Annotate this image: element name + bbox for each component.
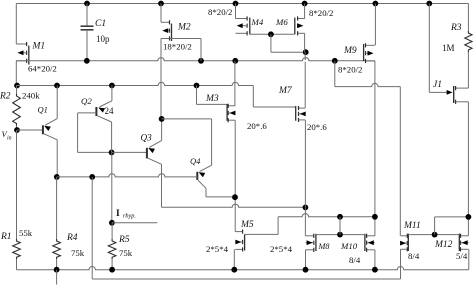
wire M9 source / rail corner down to M10 drain: [374, 61, 376, 236]
node M8 source bottom: [303, 267, 309, 273]
transistor M4: [236, 18, 248, 20]
wire bias rail (M1 source): [16, 58, 375, 61]
wire M5 gate to output rail: [245, 233, 279, 235]
svg-text:64*20/2: 64*20/2: [28, 64, 57, 74]
transistor M3: [196, 86, 198, 105]
node bias rail / M4-M3 column: [232, 58, 238, 64]
node output rail / mirror gates branch: [337, 214, 343, 220]
svg-text:M2: M2: [177, 23, 191, 33]
transistor M10: [367, 235, 375, 237]
wire rail2 corner down to M7 gate: [252, 86, 254, 108]
wire top VDD rail: [16, 3, 468, 5]
node R5 bottom: [109, 267, 115, 273]
node M3 source / Q4 collector / M5 drain: [232, 194, 238, 200]
transistor M1: [16, 43, 26, 45]
svg-text:M6: M6: [275, 17, 288, 27]
node VDD-M9 junction: [373, 1, 379, 7]
svg-text:R3: R3: [450, 23, 462, 33]
svg-text:in: in: [7, 136, 12, 142]
svg-text:55k: 55k: [19, 228, 33, 238]
node M5 source bottom: [231, 267, 237, 273]
svg-text:1M: 1M: [442, 43, 455, 53]
svg-text:M4: M4: [251, 17, 264, 27]
node VDD-M2 junction: [158, 1, 164, 7]
svg-text:2*5*4: 2*5*4: [206, 244, 229, 254]
wire gate branch down: [270, 34, 272, 52]
wire Q4 emitter feed: [162, 118, 212, 120]
transistor J1: [447, 90, 453, 95]
svg-text:I: I: [116, 209, 120, 219]
node Vin input: [14, 127, 20, 133]
svg-text:M3: M3: [205, 94, 219, 104]
resistor R5: [111, 223, 113, 239]
node VDD-J1 gate junction: [426, 1, 432, 7]
svg-text:M10: M10: [340, 241, 358, 251]
wire Q2/Q3 base wire: [112, 151, 147, 153]
wire M6-M7 column: [304, 52, 306, 60]
svg-text:18*20/2: 18*20/2: [163, 42, 192, 52]
wire Q2 node column down to R5: [111, 122, 113, 152]
wire Q4 base rail: [57, 174, 198, 177]
node M6 source / gates / M7 drain: [303, 49, 309, 55]
transistor M2: [161, 21, 170, 23]
resistor R1: [13, 239, 21, 259]
node M10 source bottom: [372, 267, 378, 273]
wire M2 source down to Q3-Q4 emitters: [160, 39, 162, 119]
transistor M9: [366, 44, 375, 46]
transistor Q3: [161, 119, 163, 141]
svg-text:8*20/2: 8*20/2: [338, 65, 362, 75]
node bias rail / M9 gate branch: [332, 58, 338, 64]
node M3 gate branch: [194, 83, 200, 89]
node Q2 base-collector tie: [109, 150, 115, 156]
wire gates to output rail: [339, 217, 341, 235]
svg-text:Q4: Q4: [190, 156, 201, 166]
wire M3 source down to Q4 collector node: [234, 120, 236, 231]
resistor R2: [14, 83, 20, 89]
wire M8 source down: [305, 250, 307, 270]
svg-text:M12: M12: [434, 240, 453, 250]
node bias rail / M2 wire: [198, 58, 204, 64]
wire M9 gate node branch: [334, 61, 336, 87]
transistor Q2: [111, 86, 113, 101]
wire Q3 collector down: [161, 164, 163, 207]
svg-text:R1: R1: [0, 232, 12, 242]
svg-text:rbyp.: rbyp.: [123, 213, 136, 220]
svg-text:R5: R5: [118, 235, 130, 245]
svg-text:Q3: Q3: [141, 133, 153, 143]
wire Q4 collector: [205, 188, 207, 197]
svg-text:20*.6: 20*.6: [247, 121, 267, 131]
svg-text:24: 24: [105, 106, 115, 116]
svg-text:M9: M9: [343, 46, 357, 56]
svg-text:8*20/2: 8*20/2: [309, 8, 333, 18]
resistor R3 column from VDD: [467, 4, 469, 32]
node M4-M6 gate junction: [268, 31, 274, 37]
node Ibyp branch: [109, 220, 115, 226]
svg-text:Q1: Q1: [38, 105, 48, 115]
transistor Q1: [56, 86, 58, 119]
svg-text:M8: M8: [318, 242, 330, 251]
wire M1 source column to bias rail: [15, 61, 17, 86]
node Q1 emitter: [54, 83, 60, 89]
svg-text:M11: M11: [403, 221, 421, 231]
wire output rail (M10 drain node): [278, 214, 375, 217]
transistor M11: [401, 235, 408, 237]
node VDD-C1 junction: [84, 1, 90, 7]
svg-text:8/4: 8/4: [408, 251, 420, 261]
wire M9 drain column: [374, 4, 376, 46]
svg-text:20*.6: 20*.6: [307, 122, 327, 132]
svg-text:240k: 240k: [22, 91, 40, 101]
wire VSS rail: [17, 267, 469, 270]
node output rail / M10 drain: [372, 214, 378, 220]
transistor M12: [461, 235, 469, 237]
wire J1 source down to mirror node: [467, 102, 469, 236]
wire M7 source down: [304, 120, 306, 207]
svg-text:Q2: Q2: [81, 96, 92, 106]
wire M11-M12 gates: [408, 234, 459, 236]
wire second stage rail: [162, 204, 306, 207]
node C1 bottom: [84, 58, 90, 64]
node VDD-M4 junction: [233, 1, 239, 7]
wire M10 source down: [374, 250, 376, 270]
wire Q2 base loop down: [77, 113, 79, 152]
svg-text:R4: R4: [66, 233, 78, 243]
wire M11 source down to low rail: [400, 249, 402, 279]
svg-text:2*5*4: 2*5*4: [270, 244, 293, 254]
wire M2 drain column: [160, 4, 162, 23]
node M11-M12 gate junction: [432, 232, 438, 238]
node mirror gates junction: [337, 232, 343, 238]
node R4 bottom: [54, 267, 60, 273]
wire M8-M10 gates: [316, 234, 365, 236]
wire M4 drain column: [235, 4, 237, 19]
svg-text:5/4: 5/4: [456, 251, 468, 261]
wire bypass column: [91, 177, 93, 279]
transistor M7: [299, 107, 306, 109]
wire bias rail 2 (emitters): [16, 82, 253, 85]
wire gate node up and to J1 source node: [434, 217, 436, 235]
svg-text:75k: 75k: [119, 248, 133, 258]
wire Q1 collector down to R4: [56, 140, 58, 177]
wire lower return rail: [92, 278, 400, 280]
wire M1 drain column: [15, 4, 17, 45]
wire M6 drain column: [304, 4, 306, 19]
wire M2 source to rail node: [170, 38, 202, 40]
wire R4 bottom stub: [56, 270, 58, 285]
resistor R4: [53, 239, 61, 259]
transistor M6: [298, 18, 305, 20]
transistor M8: [306, 235, 314, 237]
wire Ibyp stub: [112, 222, 157, 224]
wire M3 drain up to bias rail: [234, 61, 236, 106]
svg-text:R2: R2: [0, 92, 11, 102]
svg-text:8/4: 8/4: [349, 255, 361, 265]
wire M4-M6 gates: [250, 33, 295, 35]
svg-text:75k: 75k: [71, 248, 85, 258]
svg-text:C1: C1: [95, 19, 106, 29]
svg-text:8*20/2: 8*20/2: [208, 7, 232, 17]
node Q2 emitter: [109, 83, 115, 89]
wire input column down to R1: [16, 130, 18, 239]
wire M5 source down: [233, 249, 235, 269]
transistor Q4: [200, 165, 212, 171]
node R5 column crossing: [89, 174, 95, 180]
wire J1 gate column: [428, 4, 430, 93]
node VDD-M6 junction: [302, 1, 308, 7]
wire M12 source corner: [468, 249, 470, 269]
svg-text:M7: M7: [278, 86, 293, 96]
svg-text:M1: M1: [32, 42, 46, 52]
svg-text:M5: M5: [240, 220, 254, 230]
svg-text:10p: 10p: [96, 34, 110, 44]
node Q1 collector / R4 / Q4 base rail: [54, 174, 60, 180]
node J1 source / M12 drain: [466, 214, 472, 220]
svg-text:J1: J1: [433, 80, 442, 90]
node M7 source / M8 drain / Q3 collector: [303, 205, 309, 211]
capacitor C1: [86, 4, 88, 27]
wire M6 source down: [304, 33, 306, 52]
transistor M5: [235, 231, 242, 233]
node Q3-Q4 emitter junction: [159, 116, 165, 122]
wire Vin to Q1 base: [17, 129, 43, 131]
